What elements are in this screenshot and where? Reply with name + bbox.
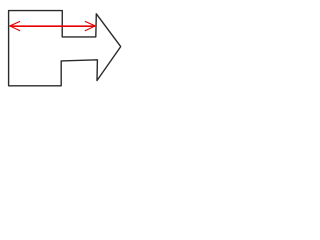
red dimension arrow shaft <box>10 25 95 27</box>
red arrowhead left <box>10 22 20 31</box>
block arrow outline <box>9 11 121 86</box>
red arrowhead right <box>85 22 95 31</box>
